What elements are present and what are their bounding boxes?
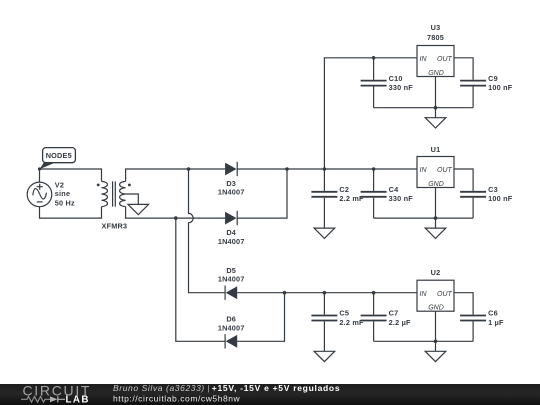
svg-text:1N4007: 1N4007 <box>218 237 245 246</box>
wire vertical drop with hop over D4 wire <box>189 169 226 293</box>
ground (U2 section) <box>425 341 446 361</box>
svg-text:100 nF: 100 nF <box>488 194 513 203</box>
svg-text:D3: D3 <box>226 179 236 188</box>
capacitor C6 1 uF <box>460 316 486 342</box>
wire U2 OUT to C6 <box>454 293 473 315</box>
svg-text:U2: U2 <box>431 268 441 277</box>
svg-text:1 µF: 1 µF <box>488 318 504 327</box>
capacitor C5 2.2 mF <box>311 293 337 352</box>
D3 labels <box>218 179 245 197</box>
wire U3 section bottom rail <box>374 107 474 109</box>
svg-text:C10: C10 <box>389 74 403 83</box>
svg-text:V2: V2 <box>55 180 64 189</box>
C5 labels <box>339 309 364 327</box>
svg-text:OUT: OUT <box>437 56 453 63</box>
node A junction dot at source top corner <box>38 167 41 170</box>
junction dot C5 on low rail <box>323 291 327 295</box>
D5 labels <box>218 266 245 284</box>
ground (U1 section) <box>425 218 446 238</box>
wire U1 OUT to C3 <box>454 169 473 191</box>
wire D5 output to U2 IN rail <box>237 292 417 294</box>
svg-text:C5: C5 <box>339 309 349 318</box>
svg-text:2.2 mF: 2.2 mF <box>339 318 364 327</box>
C9 labels <box>488 74 513 92</box>
svg-text:LAB: LAB <box>66 395 90 405</box>
svg-text:D6: D6 <box>226 315 236 324</box>
junction dot U2 ground <box>434 340 438 344</box>
wire U2 GND stem <box>435 311 437 341</box>
D6 labels <box>218 315 245 333</box>
capacitor C9 100 nF <box>460 81 486 108</box>
svg-text:1N4007: 1N4007 <box>218 323 245 332</box>
svg-text:C3: C3 <box>488 185 498 194</box>
svg-text:C4: C4 <box>389 185 399 194</box>
junction dot U1 ground <box>434 216 438 220</box>
svg-text:GND: GND <box>428 181 444 188</box>
ground (transformer center tap) <box>128 204 149 214</box>
wire D4 output up to rail <box>237 169 287 218</box>
capacitor C4 330 nF <box>361 169 387 218</box>
diode D6 1N4007 <box>225 334 237 348</box>
svg-text:U1: U1 <box>431 145 441 154</box>
svg-text:2.2 mF: 2.2 mF <box>339 194 364 203</box>
C4 labels <box>389 185 414 203</box>
junction dot C2 on mid rail <box>323 167 327 171</box>
svg-text:IN: IN <box>420 56 428 63</box>
node NODE5 flag <box>40 148 76 170</box>
diode D3 1N4007 <box>225 162 237 176</box>
wire primary bottom: V2 to XFMR3 primary <box>40 207 102 219</box>
D4 labels <box>218 228 245 246</box>
op-amp U1 regulator box <box>417 157 454 188</box>
svg-text:Bruno Silva (a36233) | +15V, -: Bruno Silva (a36233) | +15V, -15V e +5V … <box>113 383 340 393</box>
svg-text:330 nF: 330 nF <box>389 83 414 92</box>
C7 labels <box>389 309 411 327</box>
junction dot D4 output on rail <box>285 167 289 171</box>
svg-text:D5: D5 <box>226 266 236 275</box>
wire primary top: V2 to XFMR3 primary <box>40 169 102 182</box>
svg-text:NODE5: NODE5 <box>46 151 72 160</box>
capacitor C2 2.2 mF <box>311 169 337 228</box>
junction dot C10 on top rail <box>372 56 376 60</box>
svg-text:sine: sine <box>55 189 70 198</box>
svg-text:IN: IN <box>420 167 428 174</box>
svg-text:OUT: OUT <box>437 167 453 174</box>
voltage source V2 <box>27 182 52 207</box>
wire U3 OUT to C9 <box>454 58 473 80</box>
svg-text:2.2 µF: 2.2 µF <box>389 318 411 327</box>
junction dot C7 on low rail <box>372 291 376 295</box>
junction dot D3 rail <box>187 167 191 171</box>
svg-text:C7: C7 <box>389 309 399 318</box>
ground (C5) <box>314 351 335 361</box>
junction dot on D4 wire <box>174 216 178 220</box>
capacitor C3 100 nF <box>460 192 486 218</box>
junction dot C4 on mid rail <box>372 167 376 171</box>
C10 labels <box>389 74 414 92</box>
C2 labels <box>339 185 364 203</box>
op-amp U2 regulator box <box>417 280 454 311</box>
svg-text:http://circuitlab.com/cw5h8nw: http://circuitlab.com/cw5h8nw <box>113 393 241 403</box>
junction dot U3 ground <box>434 106 438 110</box>
svg-text:GND: GND <box>428 70 444 77</box>
svg-text:C6: C6 <box>488 309 498 318</box>
svg-text:100 nF: 100 nF <box>488 83 513 92</box>
svg-text:7805: 7805 <box>427 33 444 42</box>
svg-text:XFMR3: XFMR3 <box>102 221 128 230</box>
diode D4 1N4007 <box>225 211 237 225</box>
wire secondary center tap <box>126 194 139 204</box>
footer bar <box>0 384 540 405</box>
C3 labels <box>488 185 513 203</box>
wire U1 section bottom rail <box>374 217 474 219</box>
wire D6 output up to D5 rail <box>237 293 284 342</box>
U3 labels <box>427 23 444 42</box>
transformer XFMR3 <box>97 181 131 206</box>
footer CircuitLab logo <box>21 383 91 405</box>
svg-text:330 nF: 330 nF <box>389 194 414 203</box>
svg-text:C2: C2 <box>339 185 349 194</box>
wire D3 output to U1 IN rail <box>237 168 417 170</box>
svg-text:1N4007: 1N4007 <box>218 188 245 197</box>
footer title text <box>113 383 340 403</box>
svg-text:GND: GND <box>428 305 444 312</box>
svg-text:C9: C9 <box>488 74 498 83</box>
wire U2 section bottom rail <box>374 340 474 342</box>
svg-text:D4: D4 <box>226 228 236 237</box>
wire secondary top to node <box>126 169 226 181</box>
ground (C2) <box>314 228 335 238</box>
capacitor C7 2.2 uF <box>361 293 387 342</box>
wire U3 GND stem <box>435 77 437 108</box>
junction dot D6 output on D5 rail <box>283 291 287 295</box>
svg-text:OUT: OUT <box>437 291 453 298</box>
capacitor C10 330 nF <box>361 58 387 108</box>
wire secondary bottom <box>126 207 226 219</box>
ground (U3 section) <box>425 108 446 128</box>
svg-text:50 Hz: 50 Hz <box>55 199 75 208</box>
svg-text:U3: U3 <box>431 23 441 32</box>
wire feed to U3 section <box>324 58 417 169</box>
svg-text:1N4007: 1N4007 <box>218 275 245 284</box>
wire U1 GND stem <box>435 188 437 219</box>
V2 labels <box>55 180 75 207</box>
svg-text:IN: IN <box>420 291 428 298</box>
diode D5 1N4007 <box>225 286 237 300</box>
C6 labels <box>488 309 504 327</box>
wire vertical drop to D6 wire <box>176 218 225 341</box>
op-amp U3 regulator box <box>417 46 454 77</box>
